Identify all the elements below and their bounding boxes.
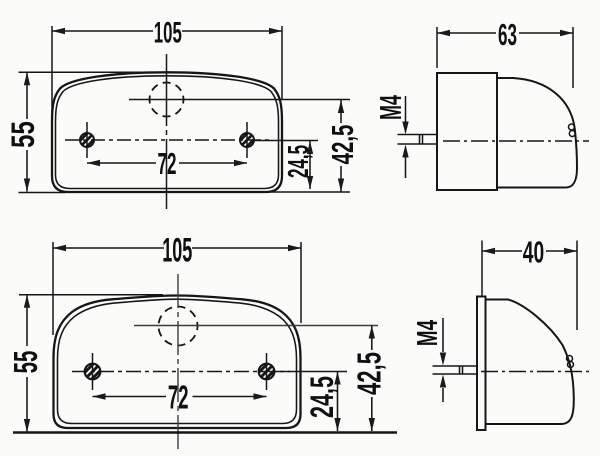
lens screw detail [567,356,573,362]
mounting hole left [80,133,94,147]
svg-text:42,5: 42,5 [351,352,387,395]
svg-text:63: 63 [498,18,517,53]
M4 dim arrows [442,318,444,352]
dim 40 line [482,250,577,252]
dim 105 line [52,30,282,32]
hole axis dash-dot line [72,371,290,373]
dim 42,5 line [371,326,373,432]
vertical center line [166,54,168,209]
dim 72 line [87,162,247,164]
svg-text:105: 105 [162,230,192,269]
dashed knockout circle [159,307,198,346]
dashed knockout circle [150,83,184,117]
mounting baseline [13,431,397,434]
VIEW1 front view top-left [5,16,360,209]
dim 105 line [53,247,301,249]
mounting hole right [240,133,254,147]
svg-text:M4: M4 [412,320,444,346]
hole vertical center ticks [87,122,247,158]
svg-text:72: 72 [168,379,189,416]
lens screw detail [569,124,575,130]
mounting hole right [259,364,275,380]
dim 72 line [93,396,267,398]
svg-text:24,5: 24,5 [282,145,315,178]
center axis line [481,371,592,373]
lens profile [497,78,577,188]
M4 stud [398,135,438,145]
dim 55 reference lines [19,72,161,192]
horizontal reference line through circle to 42,5 dim [134,325,378,327]
mounting hole left [85,364,101,380]
dim 55 line [26,72,28,191]
lamp body inner outline [56,76,279,189]
dim 42,5 line [340,100,342,192]
dim 55 line [26,295,28,432]
dim 24,5 line [309,141,311,189]
VIEW4 side view bottom-right [412,236,592,430]
svg-text:55: 55 [7,351,44,374]
housing box [437,73,497,190]
svg-text:72: 72 [158,147,177,182]
center axis line [443,140,589,142]
svg-text:24,5: 24,5 [304,376,340,418]
svg-text:42,5: 42,5 [325,125,360,165]
lamp body inner outline [58,299,297,423]
mounting flange plate [477,297,486,431]
lamp body outer outline [52,72,282,192]
dim 55 reference line [19,294,163,296]
svg-text:105: 105 [154,16,182,49]
svg-text:M4: M4 [374,95,408,120]
dim 105 extension lines [53,242,301,335]
dim 24,5 line [337,372,339,432]
VIEW2 side view top-right [374,18,589,190]
M4 dim arrows [405,96,407,122]
hole vertical center ticks [93,353,267,390]
svg-text:55: 55 [5,121,41,148]
dim 63 line [437,32,573,34]
hole axis dash-dot line [65,139,269,141]
svg-text:40: 40 [523,236,544,270]
lamp body outer outline [54,296,301,429]
dim 105 extension lines [52,26,282,126]
dim 63 extension lines [437,27,573,88]
VIEW3 front view bottom-left [7,230,397,450]
lens profile [486,300,574,425]
dim 40 extension lines [482,241,577,331]
horizontal reference line through circle to 42,5 dim [129,99,350,101]
dim 24,5 reference line from hole [275,371,347,373]
dim 24,5 reference line from hole [255,140,318,142]
bottom reference line right [267,191,350,193]
vertical center line [177,274,179,450]
M4 stud [433,366,478,374]
